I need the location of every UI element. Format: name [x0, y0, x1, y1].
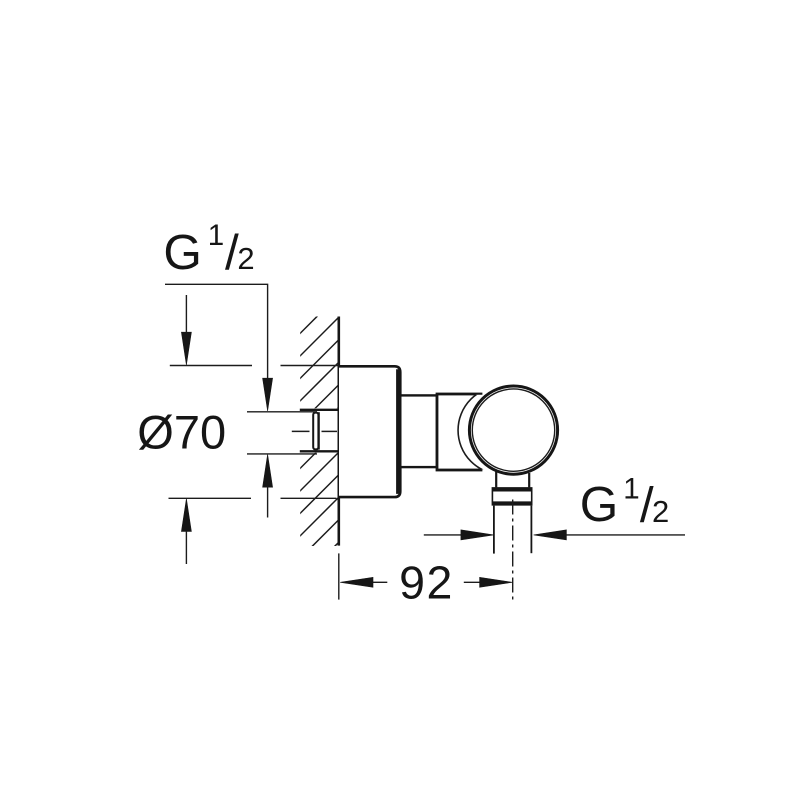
- handle rear dome crescent: [458, 386, 546, 474]
- handle outer circle: [469, 386, 557, 474]
- flange bottom extension line: [169, 497, 337, 499]
- arrowhead up to inlet bottom: [263, 454, 273, 487]
- inlet bottom extension line: [247, 453, 317, 455]
- Ø70 down arrow: [181, 295, 191, 365]
- right G1/2 dimension line right with arrowhead: [534, 530, 685, 540]
- handle housing block: [437, 394, 481, 470]
- outlet hose nut: [492, 489, 533, 503]
- inlet pipe in wall: [300, 410, 339, 452]
- svg-text:1: 1: [623, 472, 639, 505]
- svg-text:1: 1: [208, 219, 224, 252]
- escutcheon flange: [339, 366, 400, 497]
- svg-text:2: 2: [237, 241, 254, 276]
- label top G 1/2: [163, 219, 254, 280]
- wall section hatching: [297, 295, 339, 585]
- svg-text:G: G: [163, 225, 202, 280]
- 92 dimension wall extension line: [338, 553, 340, 599]
- svg-text:2: 2: [652, 494, 669, 529]
- arrowhead down to inlet top: [263, 378, 273, 411]
- svg-text:92: 92: [399, 557, 454, 609]
- flange top extension line: [170, 365, 339, 367]
- inlet pipe thread end cap: [313, 413, 318, 450]
- 92 dimension line left with arrowhead: [340, 577, 387, 587]
- right G1/2 dimension line left with arrowhead: [424, 530, 494, 540]
- outlet pipe: [494, 506, 532, 554]
- Ø70 up arrow: [181, 499, 191, 564]
- inlet centerline: [292, 430, 337, 432]
- outlet centerline: [512, 500, 514, 601]
- 92 dimension line right with arrowhead: [464, 577, 513, 587]
- handle inner circle: [472, 389, 554, 471]
- flange right shading band: [396, 369, 400, 494]
- wall face line: [337, 317, 340, 546]
- leader line from top G 1/2 label: [165, 284, 268, 379]
- inlet top extension line: [247, 411, 317, 413]
- svg-text:Ø70: Ø70: [137, 405, 226, 458]
- outlet stub: [496, 472, 529, 488]
- svg-text:G: G: [580, 477, 619, 532]
- valve neck cylinder: [400, 395, 437, 467]
- arrow stem below inlet: [267, 487, 269, 518]
- label right G 1/2: [580, 472, 670, 532]
